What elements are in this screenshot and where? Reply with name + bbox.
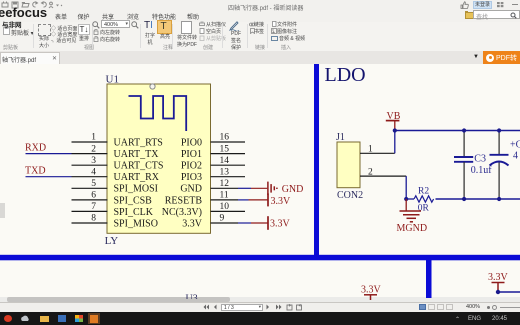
mouse cursor circle	[150, 84, 155, 89]
zoom level	[466, 304, 480, 310]
taskbar	[0, 312, 520, 325]
ribbon background	[0, 22, 520, 52]
sheet border line horizontal	[0, 255, 520, 260]
svg-text:UART_RX: UART_RX	[114, 172, 160, 183]
power port bar 3.3V (pin9)	[267, 216, 269, 230]
svg-text:3: 3	[91, 156, 96, 166]
svg-text:11: 11	[220, 191, 229, 201]
pin 6 stub	[72, 199, 108, 201]
svg-text:GND: GND	[180, 184, 202, 195]
svg-text:SPI_MOSI: SPI_MOSI	[114, 184, 158, 195]
J1 pin 1 stub	[360, 152, 395, 154]
svg-text:R2: R2	[418, 187, 429, 197]
IC U1 body	[107, 84, 211, 233]
junction VB/J1	[393, 128, 397, 132]
svg-text:RXD: RXD	[25, 143, 46, 154]
status nav	[203, 304, 219, 310]
sheet border line vertical (lower section divider)	[426, 260, 432, 298]
svg-text:5: 5	[91, 179, 96, 189]
zoom controls	[92, 21, 100, 29]
wire pin11 to 3.3V	[238, 199, 249, 201]
pin 10 stub	[211, 210, 246, 212]
svg-text:SPI_CSB: SPI_CSB	[114, 195, 153, 206]
J1 pin 2 stub	[360, 175, 406, 177]
svg-text:0.1uf: 0.1uf	[471, 165, 493, 176]
pdf convert button	[483, 51, 520, 64]
capacitor C3 top lead	[463, 131, 465, 157]
svg-text:+C: +C	[510, 140, 520, 151]
svg-text:C3: C3	[474, 154, 486, 165]
svg-text:4: 4	[91, 167, 96, 177]
pin 15 stub	[211, 153, 246, 155]
svg-text:3.3V: 3.3V	[182, 218, 203, 229]
svg-text:RESETB: RESETB	[165, 195, 203, 206]
junction C4 top	[497, 128, 501, 132]
svg-text:UART_CTS: UART_CTS	[114, 161, 164, 172]
junction C3 bottom	[462, 197, 466, 201]
svg-text:1: 1	[91, 133, 96, 143]
watermark 与非网	[2, 19, 22, 29]
link group	[249, 22, 255, 27]
status bar	[0, 302, 520, 313]
power port bar 3.3V (bottom right)	[492, 283, 505, 293]
search row: folder icon	[465, 12, 474, 19]
capacitor C3 plates	[454, 157, 473, 162]
menu bar	[55, 12, 67, 21]
wire J1 pin1 riser to VB rail	[394, 131, 396, 154]
window title	[228, 3, 303, 12]
ribbon group: clipboard	[3, 26, 10, 35]
watermark eefocus	[0, 5, 47, 20]
svg-text:PIO3: PIO3	[181, 172, 202, 183]
view group icons	[38, 24, 51, 36]
pin 13 stub	[211, 176, 246, 178]
earth ground symbol MGND	[400, 211, 422, 222]
junction node R2 left	[404, 197, 408, 201]
minimize	[512, 4, 518, 5]
pin 12 stub	[211, 187, 239, 189]
svg-text:3.3V: 3.3V	[271, 196, 292, 207]
sheet border line vertical (upper section divider)	[314, 64, 319, 255]
svg-text:0R: 0R	[418, 204, 430, 214]
svg-text:SPI_CLK: SPI_CLK	[114, 207, 154, 218]
login button	[473, 1, 492, 9]
svg-text:6: 6	[91, 191, 96, 201]
connector J1 body	[337, 142, 360, 188]
svg-text:VB: VB	[387, 111, 401, 122]
resistor R2 zigzag	[414, 196, 434, 202]
svg-text:MGND: MGND	[397, 223, 428, 234]
insert group	[271, 21, 277, 27]
svg-text:7: 7	[91, 202, 96, 212]
content area	[0, 64, 520, 301]
svg-text:TXD: TXD	[25, 166, 46, 177]
svg-text:3.3V: 3.3V	[361, 285, 382, 296]
wire pin9 to 3.3V	[238, 222, 251, 224]
wire RXD net	[26, 153, 72, 155]
view mode icons	[419, 304, 426, 310]
taskbar icons	[4, 315, 12, 322]
create group	[181, 21, 192, 34]
pin 9 stub	[211, 222, 239, 224]
wire node to R2	[406, 198, 414, 200]
svg-text:PIO0: PIO0	[181, 137, 202, 148]
svg-text:GND: GND	[282, 184, 304, 195]
capacitor C3 bottom lead	[463, 162, 465, 199]
window grid icon	[497, 2, 504, 8]
pin 1 stub	[72, 141, 108, 143]
junction C3 top	[462, 128, 466, 132]
taskbar right	[455, 316, 460, 323]
pin 16 stub	[211, 141, 246, 143]
pin 4 stub	[72, 176, 108, 178]
power ground symbol GND (sideways bars)	[268, 182, 277, 195]
svg-text:NC(3.3V): NC(3.3V)	[162, 207, 202, 218]
polarized capacitor C4 plates	[490, 155, 509, 166]
wire VB rail	[395, 130, 520, 132]
search box	[473, 10, 520, 19]
svg-text:4: 4	[513, 151, 518, 162]
svg-text:8: 8	[91, 214, 96, 224]
power port VB	[386, 120, 400, 122]
wire bottom rail right of R2	[436, 198, 520, 200]
capacitor C4 bottom lead	[498, 163, 500, 200]
protect group	[229, 21, 240, 31]
wire MGND stem	[405, 199, 407, 211]
horizontal scrollbar thumb	[7, 297, 230, 303]
junction bottom right	[496, 290, 500, 294]
svg-text:3.3V: 3.3V	[488, 272, 509, 283]
svg-text:3.3V: 3.3V	[270, 219, 291, 230]
pin 7 stub	[72, 210, 108, 212]
svg-text:UART_TX: UART_TX	[114, 149, 160, 160]
pin 8 stub	[72, 222, 108, 224]
svg-text:2: 2	[368, 167, 373, 177]
power port bar 3.3V (pin11)	[267, 193, 269, 206]
pin 11 stub	[211, 199, 239, 201]
pin 3 stub	[72, 164, 108, 166]
svg-text:SPI_MISO: SPI_MISO	[114, 218, 158, 229]
svg-text:LDO: LDO	[325, 64, 366, 86]
capacitor C4 top lead	[498, 131, 500, 155]
zoom slider	[487, 306, 490, 309]
junction C4 bottom	[497, 197, 501, 201]
wire from 3.3V port (bottom right)	[498, 291, 520, 293]
svg-text:9: 9	[220, 214, 225, 224]
svg-text:J1: J1	[336, 132, 345, 143]
pin 14 stub	[211, 164, 246, 166]
svg-text:16: 16	[220, 133, 230, 143]
schematic svg	[0, 64, 520, 301]
antenna meander symbol	[129, 96, 187, 131]
quick access toolbar icons	[1, 1, 63, 9]
svg-text:PIO1: PIO1	[181, 149, 202, 160]
svg-text:U1: U1	[106, 74, 119, 86]
svg-text:15: 15	[220, 144, 230, 154]
svg-text:PIO2: PIO2	[181, 161, 202, 172]
svg-text:LY: LY	[105, 235, 119, 247]
wire pin12 to GND	[238, 187, 251, 189]
left sidebar handle	[0, 203, 5, 218]
svg-text:CON2: CON2	[337, 190, 363, 201]
svg-text:UART_RTS: UART_RTS	[114, 137, 163, 148]
svg-text:1: 1	[368, 145, 373, 155]
svg-text:12: 12	[220, 179, 230, 189]
wire J1 pin2 drop	[405, 176, 407, 199]
thumb icon	[460, 1, 469, 9]
svg-text:14: 14	[220, 156, 230, 166]
svg-text:10: 10	[220, 202, 230, 212]
title bar	[0, 0, 520, 22]
svg-text:13: 13	[220, 167, 230, 177]
horizontal scrollbar track	[0, 297, 520, 303]
power port bar 3.3V (bottom left)	[364, 295, 377, 300]
svg-text:2: 2	[91, 144, 96, 154]
pin 2 stub	[72, 153, 108, 155]
tab dropdown arrow	[473, 54, 479, 60]
pin 5 stub	[72, 187, 108, 189]
document tab	[0, 52, 60, 65]
typewriter + highlight	[144, 20, 153, 31]
wire TXD net	[26, 176, 72, 178]
tab bar	[0, 51, 520, 65]
svg-text:U3: U3	[186, 294, 198, 302]
